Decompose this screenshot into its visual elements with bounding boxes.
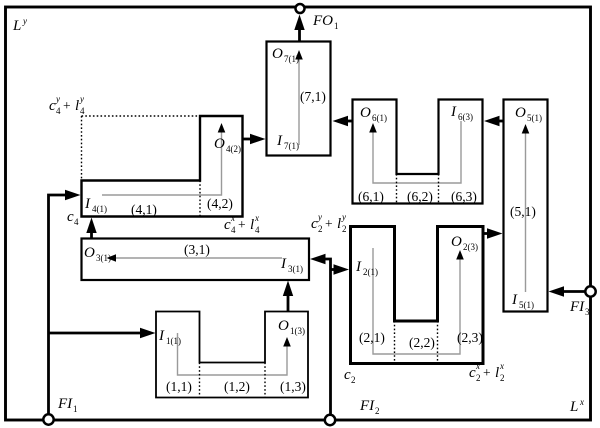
svg-text:I: I	[511, 292, 518, 308]
svg-text:(6,1): (6,1)	[358, 189, 384, 204]
svg-text:4: 4	[56, 106, 61, 116]
svg-text:(1,2): (1,2)	[224, 379, 250, 394]
svg-text:2: 2	[318, 224, 323, 234]
svg-text:6(1): 6(1)	[372, 113, 387, 123]
svg-text:y: y	[55, 94, 60, 104]
svg-text:2: 2	[375, 406, 380, 416]
svg-text:7(1): 7(1)	[284, 141, 299, 151]
svg-text:x: x	[499, 361, 504, 371]
svg-text:O: O	[272, 46, 283, 62]
svg-text:O: O	[84, 245, 95, 261]
svg-text:I: I	[450, 104, 457, 120]
svg-text:1(1): 1(1)	[166, 336, 181, 346]
svg-text:4(1): 4(1)	[92, 204, 107, 214]
svg-text:x: x	[254, 213, 259, 223]
svg-text:L: L	[12, 18, 21, 34]
svg-text:2: 2	[476, 373, 481, 383]
svg-text:FI: FI	[569, 299, 585, 315]
svg-text:2: 2	[500, 373, 505, 383]
svg-text:l: l	[250, 217, 254, 233]
svg-text:x: x	[475, 361, 480, 371]
svg-text:c: c	[311, 216, 318, 232]
svg-text:1: 1	[334, 21, 339, 31]
svg-text:I: I	[276, 133, 283, 149]
svg-text:O: O	[214, 136, 225, 152]
svg-text:y: y	[79, 94, 84, 104]
svg-text:3(1): 3(1)	[288, 264, 303, 274]
svg-text:(1,3): (1,3)	[280, 379, 306, 394]
svg-text:3: 3	[585, 307, 590, 317]
svg-text:(7,1): (7,1)	[300, 89, 326, 104]
svg-text:O: O	[278, 318, 289, 334]
svg-text:1(3): 1(3)	[290, 326, 305, 336]
svg-text:2: 2	[351, 375, 356, 385]
svg-text:l: l	[337, 216, 341, 232]
svg-text:y: y	[22, 16, 27, 26]
svg-text:+: +	[325, 216, 333, 231]
svg-text:+: +	[63, 98, 71, 113]
svg-text:x: x	[579, 397, 584, 407]
svg-text:L: L	[569, 399, 578, 415]
svg-text:3(1): 3(1)	[96, 253, 111, 263]
svg-text:c: c	[67, 209, 74, 225]
svg-text:I: I	[280, 256, 287, 272]
svg-text:4: 4	[74, 217, 79, 227]
svg-text:x: x	[230, 213, 235, 223]
svg-text:4: 4	[80, 106, 85, 116]
svg-text:2(3): 2(3)	[463, 242, 478, 252]
svg-text:(2,2): (2,2)	[409, 335, 435, 350]
svg-text:(6,2): (6,2)	[407, 189, 433, 204]
svg-text:(6,3): (6,3)	[451, 189, 477, 204]
svg-text:l: l	[75, 98, 79, 114]
svg-text:(4,1): (4,1)	[131, 202, 157, 217]
svg-text:(1,1): (1,1)	[166, 379, 192, 394]
svg-text:(2,3): (2,3)	[457, 330, 483, 345]
svg-text:5(1): 5(1)	[519, 300, 534, 310]
svg-text:FO: FO	[312, 13, 333, 29]
svg-text:1: 1	[73, 404, 78, 414]
svg-text:O: O	[451, 234, 462, 250]
svg-text:c: c	[344, 367, 351, 383]
svg-text:6(3): 6(3)	[458, 112, 473, 122]
svg-text:7(1): 7(1)	[284, 54, 299, 64]
svg-text:O: O	[360, 105, 371, 121]
svg-text:FI: FI	[359, 398, 375, 414]
svg-text:+: +	[483, 365, 491, 380]
svg-text:(2,1): (2,1)	[359, 330, 385, 345]
svg-text:O: O	[515, 105, 526, 121]
svg-text:c: c	[224, 217, 231, 233]
svg-text:2: 2	[342, 224, 347, 234]
svg-text:4: 4	[255, 225, 260, 235]
svg-text:(4,2): (4,2)	[207, 196, 233, 211]
svg-text:c: c	[49, 98, 56, 114]
svg-text:(5,1): (5,1)	[510, 204, 536, 219]
svg-text:I: I	[158, 328, 165, 344]
svg-text:I: I	[355, 259, 362, 275]
svg-text:4: 4	[231, 225, 236, 235]
svg-text:(3,1): (3,1)	[184, 242, 210, 257]
svg-text:+: +	[238, 217, 246, 232]
svg-text:5(1): 5(1)	[527, 113, 542, 123]
svg-text:2(1): 2(1)	[363, 267, 378, 277]
svg-text:l: l	[495, 365, 499, 381]
svg-text:y: y	[317, 212, 322, 222]
svg-text:I: I	[84, 196, 91, 212]
svg-text:4(2): 4(2)	[226, 144, 241, 154]
svg-text:y: y	[341, 212, 346, 222]
svg-text:FI: FI	[57, 396, 73, 412]
svg-text:c: c	[469, 365, 476, 381]
